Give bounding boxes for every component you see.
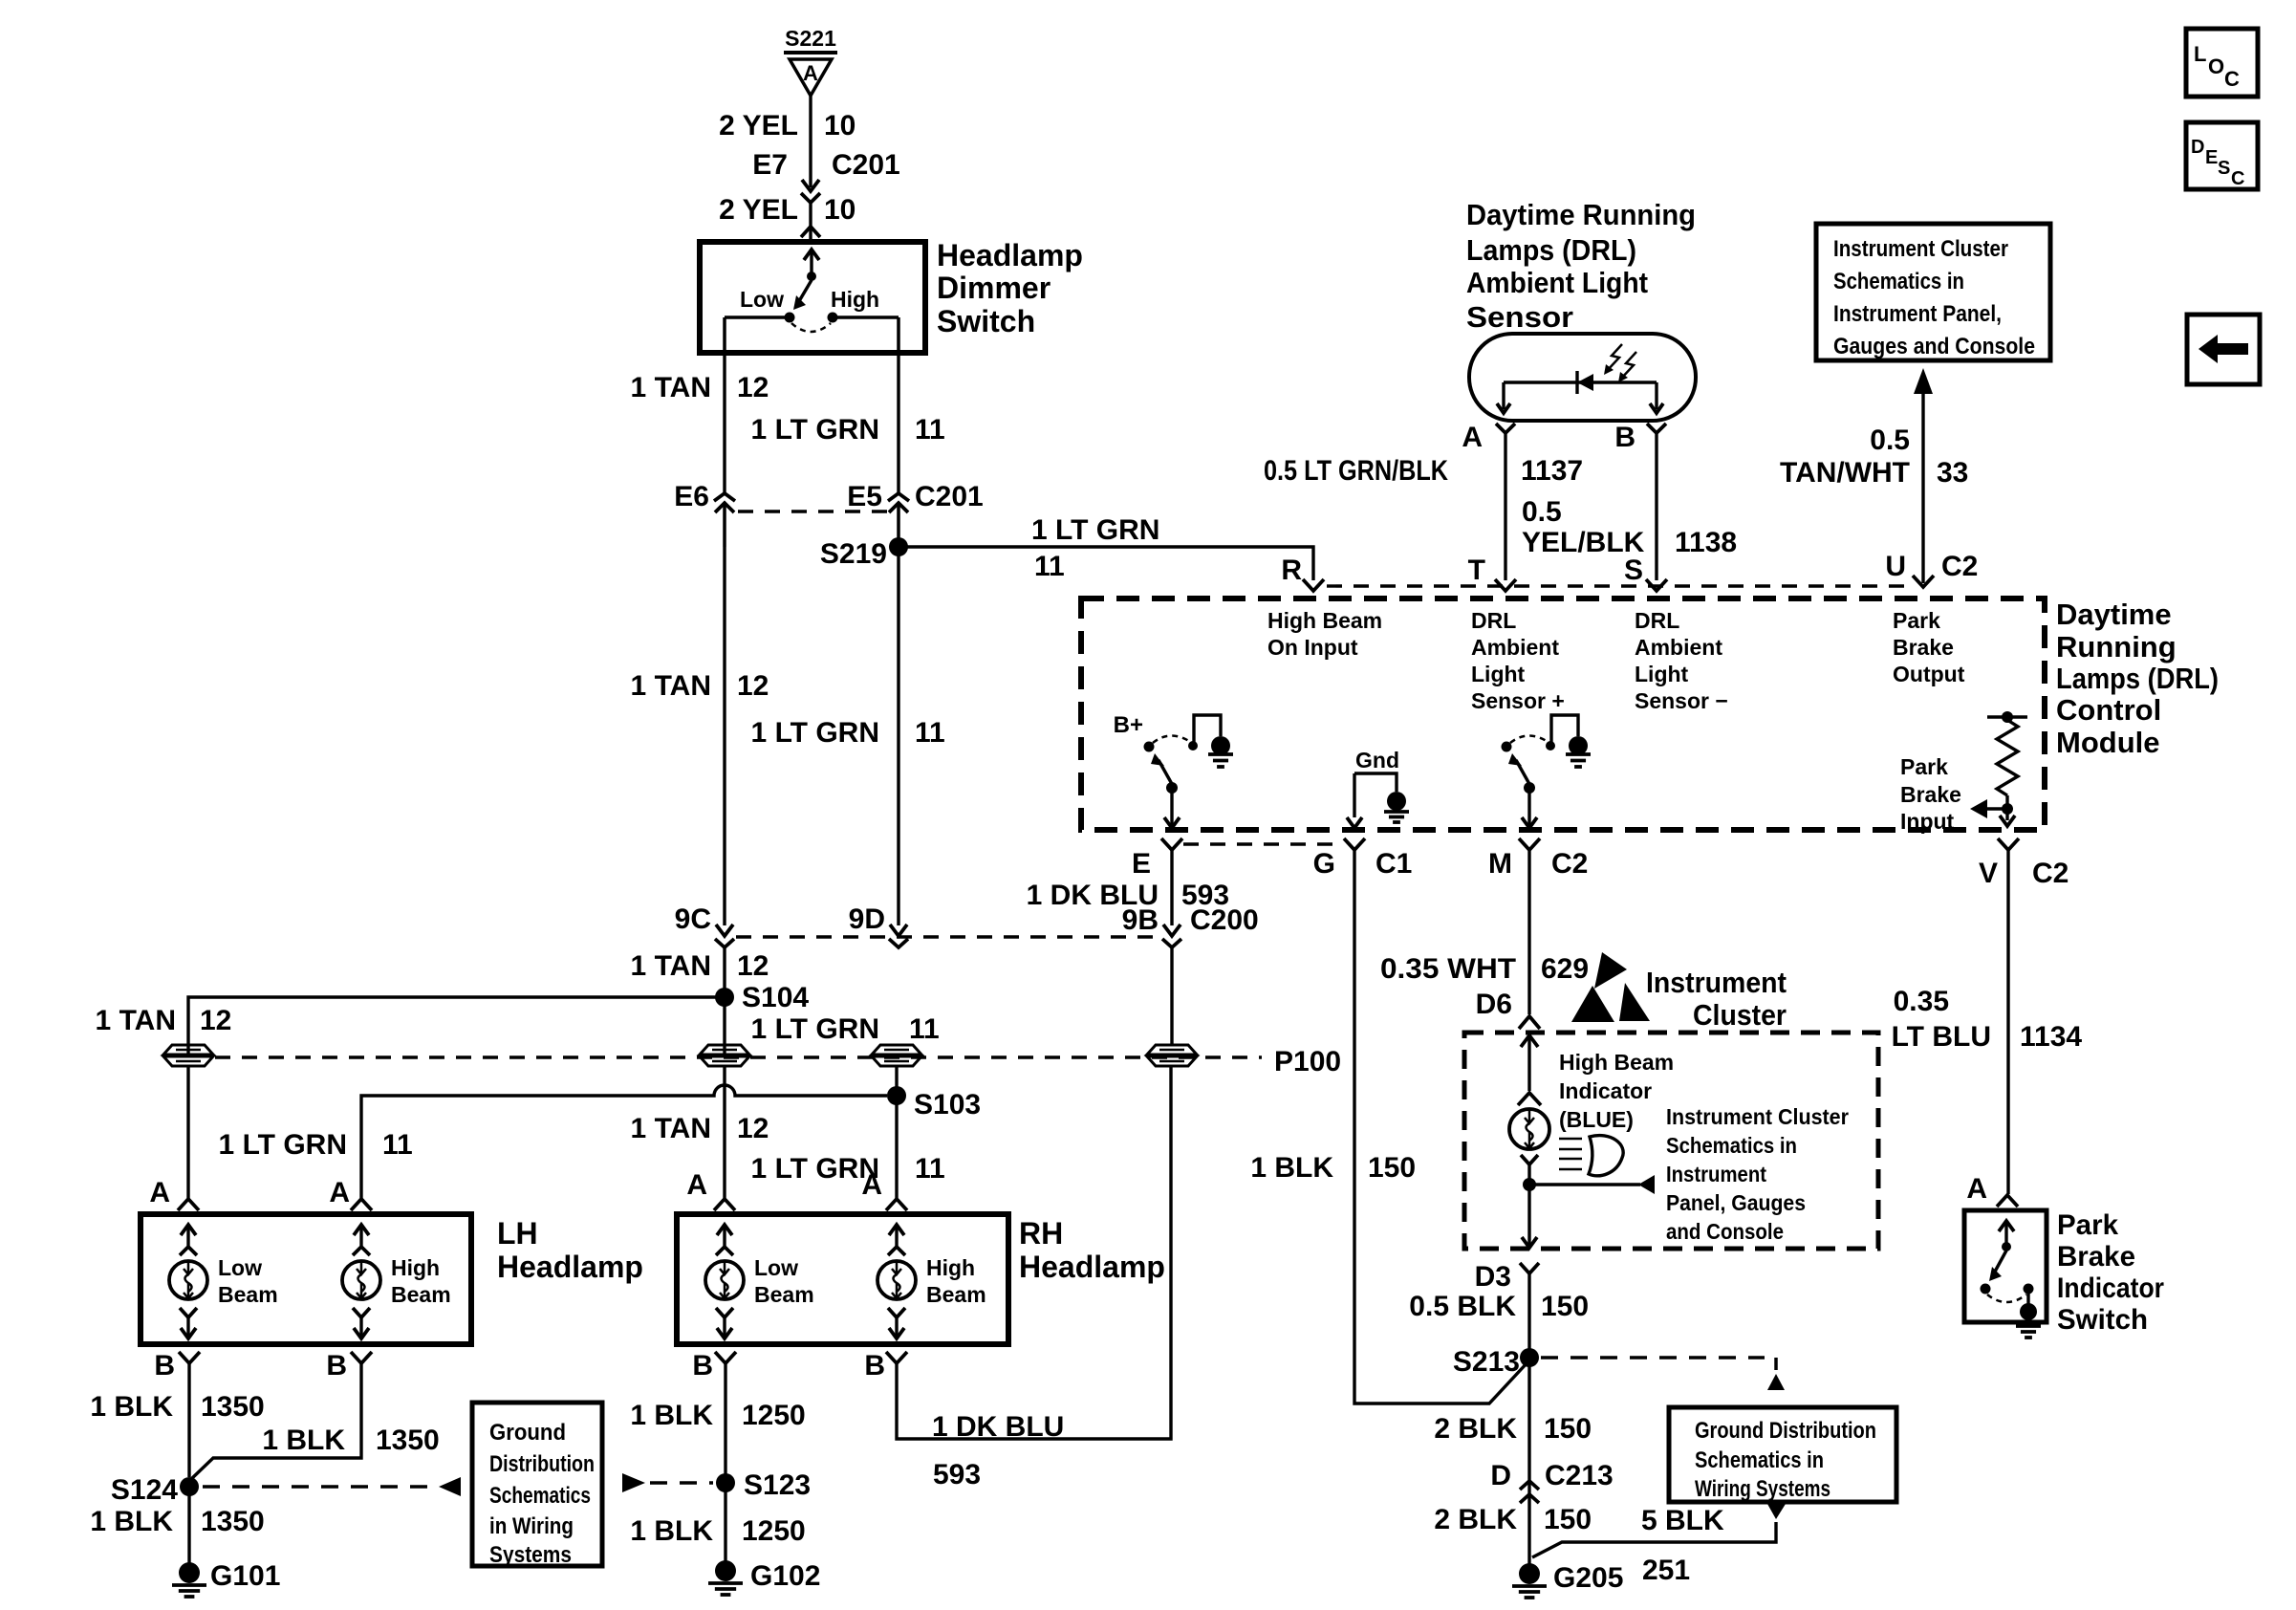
- svg-text:Headlamp: Headlamp: [1019, 1250, 1165, 1284]
- svg-text:11: 11: [915, 717, 945, 749]
- svg-text:251: 251: [1642, 1555, 1690, 1586]
- photodiode inside sensor: [1504, 381, 1657, 383]
- connector C200 pin 9B: [1163, 925, 1180, 936]
- indicator lower terminal: [1521, 1155, 1538, 1164]
- svg-text:Systems: Systems: [489, 1542, 572, 1568]
- svg-text:Control: Control: [2056, 693, 2161, 727]
- wire 0.5 BLK 150 D3 to S213: [1527, 1273, 1530, 1568]
- LH low beam lower terminal: [180, 1308, 197, 1317]
- svg-text:A: A: [861, 1169, 882, 1201]
- svg-text:11: 11: [382, 1129, 413, 1161]
- ground distribution schematics box (right): [1669, 1407, 1896, 1502]
- svg-text:B: B: [154, 1350, 175, 1382]
- svg-text:V: V: [1979, 858, 1998, 889]
- svg-text:12: 12: [737, 372, 769, 403]
- svg-text:1 TAN: 1 TAN: [96, 1005, 176, 1036]
- svg-text:M: M: [1488, 848, 1512, 880]
- cluster exit arrow D3: [1522, 1237, 1537, 1248]
- svg-text:G102: G102: [750, 1560, 820, 1592]
- svg-text:E: E: [2205, 147, 2218, 168]
- svg-text:Panel, Gauges: Panel, Gauges: [1666, 1190, 1806, 1215]
- svg-text:Park: Park: [2057, 1209, 2118, 1241]
- wire 1 BLK 150 module G to S213: [1354, 850, 1528, 1403]
- module pin U: [1913, 576, 1934, 587]
- dimmer switch Low contact: [785, 313, 795, 323]
- svg-text:1350: 1350: [376, 1425, 440, 1456]
- svg-text:5 BLK: 5 BLK: [1641, 1505, 1724, 1536]
- svg-text:11: 11: [1034, 551, 1065, 582]
- svg-text:Ambient: Ambient: [1635, 635, 1722, 660]
- svg-text:629: 629: [1541, 953, 1589, 985]
- svg-text:High Beam: High Beam: [1267, 608, 1382, 633]
- splice S219: [889, 537, 908, 556]
- svg-text:9C: 9C: [675, 903, 711, 935]
- svg-text:2 BLK: 2 BLK: [1434, 1413, 1517, 1445]
- terminal A LH low: [178, 1199, 199, 1210]
- svg-text:D: D: [1490, 1460, 1511, 1491]
- svg-text:LT BLU: LT BLU: [1892, 1021, 1991, 1053]
- svg-text:Gauges and Console: Gauges and Console: [1833, 334, 2035, 359]
- svg-text:High Beam: High Beam: [1559, 1050, 1674, 1075]
- svg-text:A: A: [803, 61, 818, 85]
- svg-text:O: O: [2208, 54, 2224, 78]
- svg-text:2 YEL: 2 YEL: [719, 194, 798, 226]
- svg-text:S221: S221: [785, 26, 836, 51]
- svg-text:LH: LH: [497, 1216, 538, 1251]
- svg-text:11: 11: [909, 1013, 940, 1045]
- svg-text:E: E: [1132, 848, 1151, 880]
- terminal A LH high: [351, 1199, 372, 1210]
- svg-text:C1: C1: [1375, 848, 1412, 880]
- svg-text:C2: C2: [1941, 551, 1978, 582]
- wire 1 LT GRN 11 S219 to 9D: [897, 547, 899, 925]
- wire 0.35 WHT 629 module M to cluster D6: [1527, 850, 1530, 1014]
- wire 0.5 LT GRN/BLK 1137 sensor A to module T: [1504, 433, 1506, 580]
- svg-text:1137: 1137: [1521, 455, 1583, 487]
- svg-text:11: 11: [915, 414, 945, 446]
- wire 1 DK BLU 593 module E to C200: [1170, 850, 1173, 925]
- svg-text:Running: Running: [2056, 630, 2177, 664]
- pass-through P100 on RH low wire: [700, 1045, 749, 1055]
- svg-text:High: High: [391, 1255, 440, 1280]
- terminal B RH low: [715, 1352, 736, 1363]
- bulb RH High Beam: [877, 1261, 916, 1299]
- DESC legend box: [2186, 122, 2258, 189]
- svg-text:1350: 1350: [201, 1506, 265, 1537]
- svg-text:C: C: [2231, 168, 2244, 189]
- svg-text:2 BLK: 2 BLK: [1434, 1504, 1517, 1535]
- svg-text:S124: S124: [111, 1474, 178, 1506]
- RH high beam terminal arrows: [895, 1225, 898, 1246]
- svg-text:T: T: [1468, 555, 1485, 586]
- svg-text:Low: Low: [218, 1255, 262, 1280]
- svg-text:Ground: Ground: [489, 1420, 566, 1446]
- svg-text:U: U: [1885, 551, 1906, 582]
- dimmer switch lever: [799, 280, 812, 301]
- wire 1 LT GRN 11 dimmer High to E5: [897, 353, 899, 493]
- svg-text:Brake: Brake: [1893, 635, 1954, 660]
- back arrow legend box: [2187, 315, 2260, 384]
- dashed line P100: [215, 1055, 1262, 1058]
- module pin E: [1161, 838, 1182, 850]
- svg-text:Input: Input: [1900, 809, 1955, 834]
- high beam indicator feed arrow: [1527, 1035, 1530, 1091]
- connector C201 pin E5: [888, 493, 909, 501]
- park brake indicator switch box: [1964, 1210, 2047, 1322]
- power feed triangle S221: [784, 51, 837, 54]
- svg-text:Ambient: Ambient: [1471, 635, 1559, 660]
- connector C201 pin E7: [802, 180, 819, 191]
- park brake switch contacts: [1981, 1284, 1991, 1295]
- svg-text:Daytime: Daytime: [2056, 598, 2172, 631]
- splice S103: [887, 1086, 906, 1105]
- svg-text:1134: 1134: [2020, 1021, 2082, 1053]
- svg-text:L: L: [2194, 42, 2206, 66]
- svg-text:A: A: [149, 1177, 170, 1208]
- instrument cluster dashed box: [1464, 1033, 1878, 1249]
- svg-text:B: B: [864, 1350, 885, 1382]
- svg-text:1 LT GRN: 1 LT GRN: [1031, 514, 1159, 546]
- bulb LH High Beam: [342, 1261, 380, 1299]
- connector C201 pin E6: [714, 493, 735, 501]
- cluster terminal D6: [1519, 1016, 1540, 1029]
- svg-text:C: C: [2224, 67, 2240, 91]
- wire C201 to dimmer switch: [809, 201, 812, 239]
- svg-text:DRL: DRL: [1635, 608, 1679, 633]
- svg-text:Gnd: Gnd: [1355, 748, 1399, 772]
- pass-through P100 on RH high wire: [872, 1045, 921, 1055]
- svg-text:1 LT GRN: 1 LT GRN: [751, 1153, 879, 1185]
- wire 1 BLK 1350 LH high to S124: [189, 1363, 361, 1481]
- svg-text:150: 150: [1368, 1152, 1416, 1184]
- svg-text:0.5 LT GRN/BLK: 0.5 LT GRN/BLK: [1264, 455, 1448, 487]
- wire C200 to P100: [1170, 947, 1173, 1045]
- svg-text:Schematics in: Schematics in: [1833, 269, 1964, 294]
- svg-text:Instrument Cluster: Instrument Cluster: [1666, 1104, 1849, 1129]
- terminal A RH high: [886, 1199, 907, 1210]
- pass-through P100 on DK BLU wire: [1147, 1045, 1197, 1055]
- wire RH high P100 to S103: [895, 1066, 898, 1198]
- svg-text:150: 150: [1544, 1504, 1592, 1535]
- wire 1 BLK 1350 LH low to S124: [187, 1363, 190, 1477]
- connector dashed line E-G: [1183, 842, 1344, 845]
- wire 1 BLK 1250 RH low to S123: [724, 1363, 726, 1477]
- svg-text:1 BLK: 1 BLK: [90, 1506, 173, 1537]
- headlamp dimmer switch box: [700, 242, 925, 353]
- svg-text:DRL: DRL: [1471, 608, 1516, 633]
- svg-text:0.5 BLK: 0.5 BLK: [1409, 1291, 1516, 1322]
- svg-text:Headlamp: Headlamp: [937, 238, 1083, 272]
- svg-text:C2: C2: [1551, 848, 1588, 880]
- wire 1 DK BLU 593 RH high beam to C200: [897, 1066, 1171, 1439]
- LH low beam terminal arrows: [186, 1225, 189, 1246]
- svg-text:and Console: and Console: [1666, 1219, 1784, 1244]
- svg-text:Lamps (DRL): Lamps (DRL): [1466, 233, 1636, 267]
- svg-text:R: R: [1281, 555, 1302, 586]
- svg-text:B+: B+: [1114, 712, 1143, 738]
- svg-text:0.35: 0.35: [1894, 986, 1949, 1017]
- park brake switch pivot: [2002, 1242, 2011, 1251]
- svg-text:D6: D6: [1476, 989, 1512, 1020]
- svg-text:A: A: [1966, 1173, 1987, 1205]
- wire 1 BLK 1250 S123 to G102: [724, 1483, 726, 1566]
- dimmer switch throw arc: [791, 323, 831, 332]
- terminal chevron into dimmer switch: [801, 227, 820, 237]
- connector C2 dashed line (top): [1327, 584, 1910, 587]
- wire 1 TAN 12 9C to S104: [723, 946, 726, 1055]
- svg-text:E7: E7: [752, 149, 788, 181]
- module pin T: [1495, 579, 1516, 591]
- svg-text:Sensor −: Sensor −: [1635, 688, 1728, 713]
- park brake switch arrow: [2004, 1221, 2007, 1243]
- sensor pin B: [1647, 424, 1666, 433]
- svg-text:1 TAN: 1 TAN: [631, 670, 711, 702]
- svg-text:C2: C2: [2032, 858, 2069, 889]
- svg-text:Beam: Beam: [218, 1282, 278, 1307]
- svg-text:Headlamp: Headlamp: [497, 1250, 643, 1284]
- splice S104: [715, 988, 734, 1007]
- headlamp beam icon: [1559, 1138, 1582, 1141]
- ESD sensitive symbol: [1594, 952, 1627, 989]
- RH low beam lower terminal: [716, 1308, 733, 1317]
- svg-text:10: 10: [824, 194, 856, 226]
- svg-text:1 TAN: 1 TAN: [631, 1113, 711, 1144]
- svg-text:Wiring Systems: Wiring Systems: [1695, 1476, 1830, 1502]
- svg-text:Daytime Running: Daytime Running: [1466, 198, 1696, 231]
- park brake switch ground: [2026, 1293, 2029, 1306]
- ground G101: [179, 1562, 200, 1583]
- dashed reference box to S123: [622, 1473, 645, 1492]
- wire 5 BLK 251 to ground distribution box: [1532, 1522, 1776, 1557]
- svg-text:Switch: Switch: [937, 304, 1035, 338]
- DRL ambient light sensor switch: [1502, 742, 1512, 752]
- svg-text:0.35 WHT: 0.35 WHT: [1380, 953, 1516, 985]
- svg-text:A: A: [329, 1177, 350, 1208]
- svg-text:0.5: 0.5: [1522, 496, 1562, 528]
- module pin G: [1344, 838, 1365, 850]
- park brake switch throw arc: [1987, 1295, 2026, 1302]
- terminal B LH low: [179, 1352, 200, 1363]
- svg-text:1 LT GRN: 1 LT GRN: [751, 1013, 879, 1045]
- terminal B LH high: [351, 1352, 372, 1363]
- svg-text:Ambient Light: Ambient Light: [1466, 266, 1648, 299]
- ground G102: [715, 1560, 736, 1581]
- terminal A park brake switch: [1997, 1195, 2018, 1207]
- svg-text:Beam: Beam: [391, 1282, 451, 1307]
- pass-through P100 on LH low wire: [163, 1045, 213, 1055]
- svg-text:Sensor: Sensor: [1466, 300, 1573, 334]
- svg-text:S219: S219: [820, 538, 887, 570]
- svg-text:1 DK BLU: 1 DK BLU: [932, 1411, 1064, 1443]
- LH headlamp box: [141, 1214, 471, 1344]
- RH low beam terminal arrows: [723, 1225, 726, 1246]
- svg-text:P100: P100: [1274, 1046, 1341, 1077]
- svg-text:G: G: [1313, 848, 1335, 880]
- connector pin 9C: [716, 925, 733, 936]
- ground G205: [1519, 1563, 1540, 1584]
- svg-text:Brake: Brake: [2057, 1241, 2135, 1273]
- svg-text:High: High: [831, 287, 879, 312]
- svg-text:9D: 9D: [849, 903, 885, 935]
- svg-text:S: S: [1624, 555, 1643, 586]
- svg-text:33: 33: [1937, 457, 1968, 489]
- svg-text:G205: G205: [1553, 1562, 1623, 1594]
- wire S104 branch to LH low beam: [188, 997, 725, 1055]
- svg-text:12: 12: [737, 670, 769, 702]
- svg-text:1250: 1250: [742, 1515, 806, 1547]
- svg-text:On Input: On Input: [1267, 635, 1358, 660]
- svg-text:Lamps (DRL): Lamps (DRL): [2056, 662, 2219, 695]
- svg-text:Indicator: Indicator: [1559, 1078, 1652, 1103]
- park brake input resistor: [1987, 715, 2027, 718]
- svg-text:Park: Park: [1893, 608, 1940, 633]
- LH high beam terminal arrows: [359, 1225, 362, 1246]
- svg-text:(BLUE): (BLUE): [1559, 1107, 1634, 1132]
- svg-text:0.5: 0.5: [1870, 424, 1910, 456]
- dashed reference S124 to ground distribution box: [203, 1485, 436, 1489]
- svg-text:12: 12: [200, 1005, 231, 1036]
- svg-text:Instrument Cluster: Instrument Cluster: [1833, 236, 2008, 262]
- svg-text:Module: Module: [2056, 726, 2160, 759]
- sensor pin A: [1496, 424, 1515, 433]
- svg-text:S123: S123: [744, 1469, 811, 1501]
- dashed reference S213 to ground distribution box: [1541, 1356, 1765, 1360]
- module pin M: [1519, 838, 1540, 850]
- bulb high beam indicator: [1509, 1109, 1549, 1149]
- park brake switch lever: [1995, 1251, 2006, 1272]
- module pin V: [1998, 838, 2019, 850]
- dimmer switch common terminal arrow: [810, 250, 812, 273]
- daytime running lamps DRL control module box: [1081, 598, 2045, 830]
- bulb LH Low Beam: [169, 1261, 207, 1299]
- svg-text:A: A: [1462, 422, 1483, 453]
- svg-text:S: S: [2218, 158, 2230, 179]
- svg-text:1 BLK: 1 BLK: [262, 1425, 345, 1456]
- connector dashed line 9C-9D-9B: [736, 935, 1160, 938]
- svg-text:2 YEL: 2 YEL: [719, 110, 798, 141]
- svg-text:Ground Distribution: Ground Distribution: [1695, 1418, 1876, 1444]
- svg-text:Beam: Beam: [926, 1282, 986, 1307]
- connector pin 9D: [890, 925, 907, 936]
- svg-text:in Wiring: in Wiring: [489, 1513, 574, 1539]
- svg-text:150: 150: [1541, 1291, 1589, 1322]
- svg-text:RH: RH: [1019, 1216, 1063, 1251]
- splice S213: [1520, 1348, 1539, 1367]
- wire 1 LT GRN 11 S219 to module R input: [899, 547, 1313, 580]
- svg-text:Low: Low: [740, 287, 784, 312]
- svg-text:S213: S213: [1453, 1346, 1520, 1378]
- svg-text:593: 593: [933, 1459, 981, 1490]
- svg-text:12: 12: [737, 1113, 769, 1144]
- svg-text:S104: S104: [742, 982, 809, 1013]
- svg-text:Instrument: Instrument: [1646, 966, 1787, 999]
- light arrows into photodiode: [1606, 344, 1622, 372]
- svg-text:B: B: [1614, 422, 1635, 453]
- svg-text:1 LT GRN: 1 LT GRN: [219, 1129, 347, 1161]
- svg-text:C200: C200: [1190, 904, 1259, 936]
- LOC legend box: [2186, 29, 2258, 97]
- wire S221 to C201: [809, 96, 812, 187]
- svg-text:1 LT GRN: 1 LT GRN: [751, 414, 879, 446]
- terminal A RH low: [714, 1199, 735, 1210]
- RH high beam lower terminal: [888, 1308, 905, 1317]
- svg-text:Sensor +: Sensor +: [1471, 688, 1565, 713]
- dimmer switch pivot: [807, 272, 816, 281]
- svg-text:150: 150: [1544, 1413, 1592, 1445]
- svg-text:E6: E6: [674, 481, 709, 512]
- park brake input arrow: [1987, 807, 2007, 810]
- svg-text:Brake: Brake: [1900, 782, 1961, 807]
- svg-text:11: 11: [915, 1153, 945, 1185]
- LH high beam lower terminal: [353, 1308, 370, 1317]
- svg-text:Instrument Panel,: Instrument Panel,: [1833, 301, 2002, 327]
- wire 0.5 YEL/BLK 1138 sensor B to module S: [1655, 433, 1657, 580]
- svg-text:1 BLK: 1 BLK: [1250, 1152, 1333, 1184]
- dimmer switch contact wires: [725, 315, 785, 319]
- instrument cluster schematics reference box: [1816, 224, 2050, 360]
- ground distribution schematics box (left): [472, 1403, 602, 1566]
- svg-text:E5: E5: [847, 481, 882, 512]
- svg-text:1 LT GRN: 1 LT GRN: [751, 717, 879, 749]
- high beam input switch: [1144, 742, 1155, 752]
- svg-text:A: A: [686, 1169, 707, 1201]
- svg-text:Low: Low: [754, 1255, 798, 1280]
- svg-text:TAN/WHT: TAN/WHT: [1780, 457, 1910, 489]
- splice S124: [180, 1477, 199, 1496]
- svg-text:High: High: [926, 1255, 975, 1280]
- wire LH low P100 to headlamp: [186, 1066, 189, 1198]
- svg-text:Beam: Beam: [754, 1282, 814, 1307]
- svg-text:10: 10: [824, 110, 856, 141]
- svg-text:1 BLK: 1 BLK: [630, 1400, 713, 1431]
- module pin S: [1646, 579, 1667, 591]
- svg-text:S103: S103: [914, 1089, 981, 1120]
- wire 0.35 LT BLU 1134 module V to park brake switch: [2006, 850, 2009, 1194]
- svg-text:Indicator: Indicator: [2057, 1273, 2164, 1304]
- svg-text:1 TAN: 1 TAN: [631, 950, 711, 982]
- arrow wire 0.5 TAN/WHT 33 module U to instrument cluster: [1921, 392, 1924, 583]
- svg-text:B: B: [692, 1350, 713, 1382]
- svg-text:1 TAN: 1 TAN: [631, 372, 711, 403]
- svg-text:Dimmer: Dimmer: [937, 271, 1051, 305]
- dimmer switch High contact: [828, 313, 838, 323]
- svg-text:1350: 1350: [201, 1391, 265, 1423]
- svg-text:1250: 1250: [742, 1400, 806, 1431]
- wire 1 BLK 1350 S124 to G101: [187, 1487, 190, 1568]
- svg-text:Switch: Switch: [2057, 1304, 2148, 1336]
- svg-text:Distribution: Distribution: [489, 1451, 595, 1477]
- svg-text:Light: Light: [1471, 662, 1526, 686]
- svg-text:Park: Park: [1900, 754, 1948, 779]
- wire S103 branch to LH high beam with hop: [361, 1085, 887, 1198]
- svg-text:12: 12: [737, 950, 769, 982]
- svg-text:B: B: [326, 1350, 347, 1382]
- svg-text:C201: C201: [832, 149, 900, 181]
- svg-text:Schematics in: Schematics in: [1666, 1133, 1797, 1158]
- junction to reference note: [1523, 1178, 1536, 1191]
- svg-text:Light: Light: [1635, 662, 1689, 686]
- svg-text:C213: C213: [1545, 1460, 1614, 1491]
- svg-text:Schematics: Schematics: [489, 1483, 591, 1509]
- svg-text:9B: 9B: [1122, 904, 1159, 936]
- RH headlamp box: [677, 1214, 1008, 1344]
- svg-text:1 BLK: 1 BLK: [90, 1391, 173, 1423]
- svg-text:1138: 1138: [1675, 527, 1737, 558]
- svg-text:Output: Output: [1893, 662, 1965, 686]
- svg-text:D: D: [2191, 137, 2204, 158]
- svg-text:1 BLK: 1 BLK: [630, 1515, 713, 1547]
- splice S123: [716, 1473, 735, 1492]
